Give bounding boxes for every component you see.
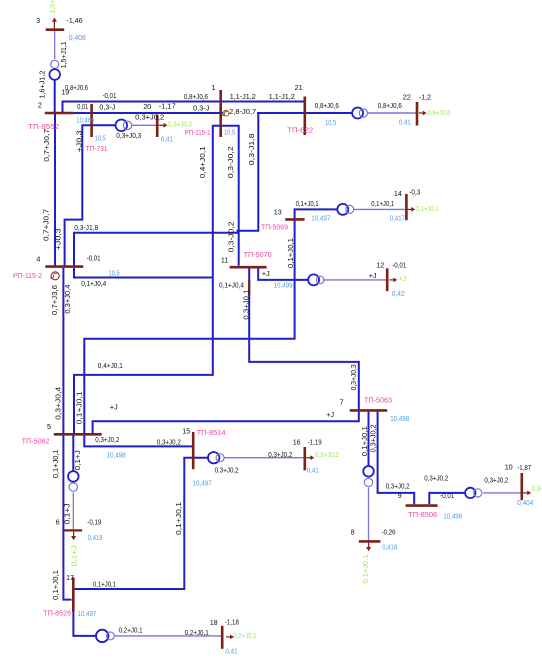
svg-text:1,5+J1,1: 1,5+J1,1 <box>59 41 68 68</box>
svg-text:0,3+J0,2: 0,3+J0,2 <box>386 482 410 491</box>
svg-text:17: 17 <box>66 573 74 582</box>
svg-text:10,5: 10,5 <box>325 118 336 127</box>
svg-text:0,7+J3,6: 0,7+J3,6 <box>50 285 59 315</box>
svg-text:5: 5 <box>47 422 51 431</box>
svg-text:0,1+J0,1: 0,1+J0,1 <box>174 502 183 535</box>
svg-text:ТП-8526: ТП-8526 <box>43 609 71 618</box>
svg-text:18: 18 <box>210 618 218 627</box>
svg-text:0,3+J0,2: 0,3+J0,2 <box>424 474 448 483</box>
svg-text:10,497: 10,497 <box>311 214 330 223</box>
svg-text:+J: +J <box>262 269 270 278</box>
svg-text:10,498: 10,498 <box>107 451 126 460</box>
svg-text:0,1+J0,1: 0,1+J0,1 <box>296 199 319 208</box>
svg-text:0,3-J0,2: 0,3-J0,2 <box>226 146 235 178</box>
svg-text:0,41: 0,41 <box>399 118 411 127</box>
svg-text:0,3+J0,2: 0,3+J0,2 <box>157 438 181 447</box>
svg-text:9: 9 <box>398 491 402 500</box>
svg-text:0,3+J0,2: 0,3+J0,2 <box>369 424 378 452</box>
svg-text:0,41: 0,41 <box>226 647 238 656</box>
svg-text:0,3+J0,2: 0,3+J0,2 <box>215 465 239 474</box>
svg-text:0,3+J0,2: 0,3+J0,2 <box>315 450 339 459</box>
svg-text:13: 13 <box>274 207 282 216</box>
svg-text:20: 20 <box>143 102 151 111</box>
svg-text:0,1+J0,1: 0,1+J0,1 <box>286 238 295 268</box>
svg-text:0,404: 0,404 <box>517 498 533 507</box>
svg-text:0,3+J0,2: 0,3+J0,2 <box>95 435 119 444</box>
svg-text:0,3+J0,4: 0,3+J0,4 <box>63 285 72 314</box>
svg-text:0,3+J0,2: 0,3+J0,2 <box>135 113 164 122</box>
svg-text:ТП-5069: ТП-5069 <box>261 223 288 232</box>
svg-text:0,7+J0,7: 0,7+J0,7 <box>42 209 51 241</box>
svg-text:0,1+J0,1: 0,1+J0,1 <box>93 580 116 589</box>
svg-text:0,2+J0,1: 0,2+J0,1 <box>185 628 209 637</box>
svg-text:0,1+J0,1: 0,1+J0,1 <box>361 555 370 584</box>
svg-text:0,2+J0,1: 0,2+J0,1 <box>233 631 256 640</box>
svg-text:1,6+J1,2: 1,6+J1,2 <box>38 71 47 99</box>
svg-text:-0,3: -0,3 <box>409 188 420 197</box>
svg-text:-1,18: -1,18 <box>225 618 239 627</box>
svg-text:+J: +J <box>326 410 334 419</box>
svg-text:0,1+J0,1: 0,1+J0,1 <box>360 426 369 456</box>
svg-text:10,497: 10,497 <box>77 609 96 618</box>
svg-text:0,3-J: 0,3-J <box>193 104 209 113</box>
svg-text:0,2+J0,1: 0,2+J0,1 <box>119 626 143 635</box>
svg-text:10,5: 10,5 <box>109 269 120 278</box>
svg-text:0,4+J0,1: 0,4+J0,1 <box>98 361 123 370</box>
svg-text:0,1+J0,1: 0,1+J0,1 <box>51 449 60 478</box>
svg-text:-1,46: -1,46 <box>67 16 83 25</box>
svg-text:10,5: 10,5 <box>224 128 235 137</box>
svg-text:+J: +J <box>369 271 377 280</box>
svg-text:0,8+J0,6: 0,8+J0,6 <box>378 101 402 110</box>
svg-text:0,1+J: 0,1+J <box>73 450 82 470</box>
svg-text:+J: +J <box>398 274 406 283</box>
svg-text:0,1+J0,4: 0,1+J0,4 <box>81 279 106 288</box>
svg-text:-0,01: -0,01 <box>440 491 454 500</box>
svg-text:0,1+J0,1: 0,1+J0,1 <box>75 391 84 424</box>
svg-text:0,3+J0,2: 0,3+J0,2 <box>168 120 192 129</box>
svg-text:10,497: 10,497 <box>193 479 212 488</box>
svg-text:0,3+J0,2: 0,3+J0,2 <box>532 484 542 493</box>
svg-text:11: 11 <box>221 256 228 265</box>
svg-text:РП-115-2: РП-115-2 <box>13 271 42 280</box>
svg-text:2: 2 <box>38 101 42 110</box>
svg-text:8: 8 <box>351 528 355 537</box>
svg-text:0,4+J0,1: 0,4+J0,1 <box>198 146 207 178</box>
svg-text:0,41: 0,41 <box>161 135 173 144</box>
svg-text:ТП-731: ТП-731 <box>86 144 108 153</box>
svg-text:0,8+J0,6: 0,8+J0,6 <box>184 92 208 101</box>
svg-text:ТП-622: ТП-622 <box>287 126 313 135</box>
svg-text:0,8+J0,6: 0,8+J0,6 <box>65 83 88 92</box>
svg-text:0,408: 0,408 <box>69 33 86 42</box>
svg-text:1: 1 <box>211 83 215 92</box>
svg-text:0,8+J0,6: 0,8+J0,6 <box>315 101 339 110</box>
svg-text:-0,19: -0,19 <box>87 518 101 527</box>
svg-text:12: 12 <box>376 261 384 270</box>
svg-text:0,3-J1,8: 0,3-J1,8 <box>247 133 256 165</box>
svg-text:ТП-8552: ТП-8552 <box>28 122 59 131</box>
svg-text:+J0,3: +J0,3 <box>53 228 62 250</box>
svg-text:0,1+J: 0,1+J <box>63 503 72 524</box>
svg-text:ТП-5063: ТП-5063 <box>364 396 392 405</box>
svg-text:-0,01: -0,01 <box>102 91 116 100</box>
svg-text:6: 6 <box>56 518 60 527</box>
svg-text:ТП-8506: ТП-8506 <box>408 510 437 519</box>
svg-text:+J0,3: +J0,3 <box>74 130 83 152</box>
svg-text:0,3+J0,4: 0,3+J0,4 <box>54 387 63 420</box>
svg-text:7: 7 <box>340 398 344 407</box>
svg-text:0,3+J0,3: 0,3+J0,3 <box>116 131 141 140</box>
svg-text:16: 16 <box>293 438 301 447</box>
svg-text:ТП-5062: ТП-5062 <box>22 437 50 446</box>
svg-text:-0,26: -0,26 <box>382 528 396 537</box>
svg-text:-1,19: -1,19 <box>308 438 322 447</box>
svg-text:0,3+J0,2: 0,3+J0,2 <box>268 450 292 459</box>
svg-text:22: 22 <box>403 93 411 102</box>
svg-text:0,3+J0,1: 0,3+J0,1 <box>241 290 250 320</box>
svg-text:-0,01: -0,01 <box>392 261 406 270</box>
svg-text:1,1-J1,2: 1,1-J1,2 <box>230 92 256 101</box>
svg-text:10,496: 10,496 <box>443 512 462 521</box>
svg-text:0,417: 0,417 <box>390 214 405 223</box>
svg-text:0,3-J1,8: 0,3-J1,8 <box>74 223 98 232</box>
svg-text:10,5: 10,5 <box>95 134 106 143</box>
svg-text:2,8-J0,7: 2,8-J0,7 <box>229 107 256 116</box>
svg-text:4: 4 <box>36 255 40 264</box>
svg-text:0,7+J0,7: 0,7+J0,7 <box>42 129 51 162</box>
svg-text:10: 10 <box>505 463 513 472</box>
svg-text:0,8+J0,6: 0,8+J0,6 <box>428 108 451 117</box>
svg-text:+J: +J <box>110 403 118 412</box>
svg-text:0,3+J0,3: 0,3+J0,3 <box>349 364 358 390</box>
svg-text:21: 21 <box>295 83 303 92</box>
svg-text:РП-115-1: РП-115-1 <box>185 128 211 137</box>
svg-text:10,499: 10,499 <box>274 281 293 290</box>
svg-text:0,418: 0,418 <box>382 543 397 552</box>
svg-text:0,1+J0,4: 0,1+J0,4 <box>219 281 244 290</box>
svg-text:0,41: 0,41 <box>307 466 319 475</box>
svg-text:-0,01: -0,01 <box>87 254 101 263</box>
svg-text:1,5+J1,1: 1,5+J1,1 <box>48 0 57 14</box>
svg-text:-1,17: -1,17 <box>159 102 176 111</box>
svg-text:10,486: 10,486 <box>76 115 94 124</box>
svg-text:-1,2: -1,2 <box>419 93 431 102</box>
svg-text:15: 15 <box>182 427 190 436</box>
svg-text:14: 14 <box>394 189 402 198</box>
svg-text:10,498: 10,498 <box>390 414 409 423</box>
svg-text:0,418: 0,418 <box>88 533 103 542</box>
svg-text:0,1+J0,1: 0,1+J0,1 <box>51 570 60 600</box>
svg-text:0,3-J0,2: 0,3-J0,2 <box>226 221 235 252</box>
svg-text:0,01: 0,01 <box>77 102 88 111</box>
svg-text:3: 3 <box>36 16 40 25</box>
svg-text:0,1+J0,1: 0,1+J0,1 <box>371 199 394 208</box>
svg-text:0,42: 0,42 <box>392 289 405 298</box>
svg-text:0,1+J0,1: 0,1+J0,1 <box>416 204 439 213</box>
svg-text:0,1+J: 0,1+J <box>69 545 78 566</box>
svg-text:0,3+J0,2: 0,3+J0,2 <box>484 476 508 485</box>
svg-text:ТП-8514: ТП-8514 <box>197 428 226 437</box>
svg-text:ТП-5070: ТП-5070 <box>244 250 272 259</box>
svg-text:-1,87: -1,87 <box>517 463 531 472</box>
svg-text:0,3-J: 0,3-J <box>99 103 115 112</box>
svg-text:1,1-J1,2: 1,1-J1,2 <box>269 92 295 101</box>
